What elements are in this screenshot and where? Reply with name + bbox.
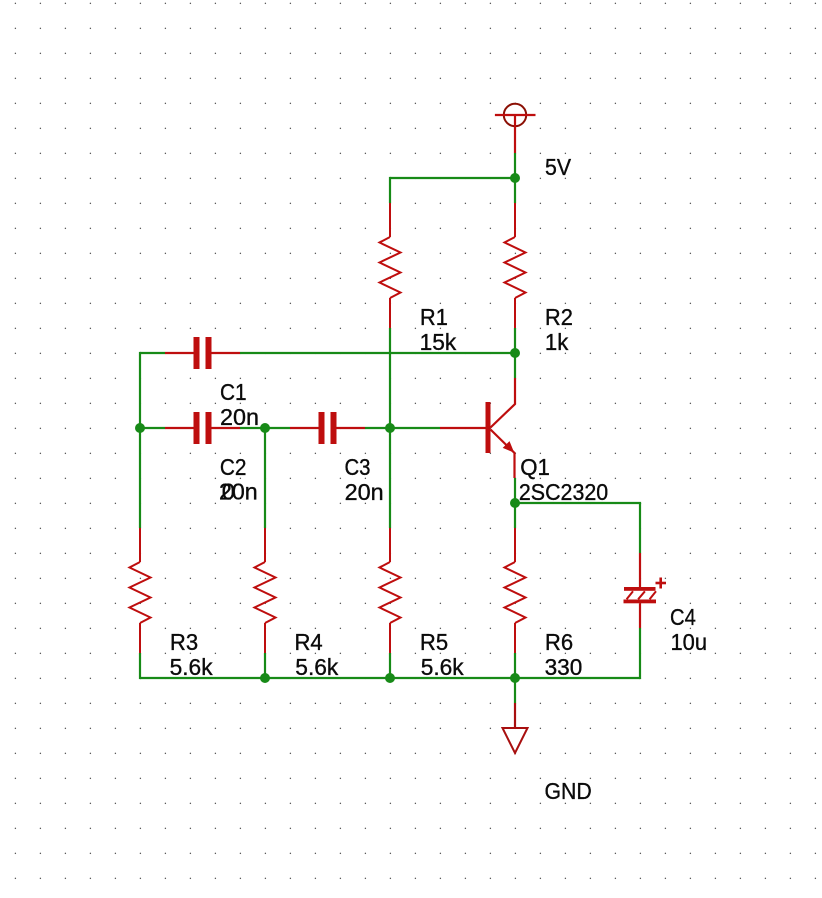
resistor R3 [130,528,151,653]
wire vertical x265 [264,428,266,528]
resistor R5 [380,528,401,653]
junction node emitter [510,498,520,508]
capacitor C2 [165,412,240,444]
wire feedback row y353 left [139,352,141,353]
capacitor C4 polarized [624,553,667,628]
svg-text:5V: 5V [545,154,572,180]
wire base row y428 seg1 [140,427,165,429]
wire bottom ground bus y678 [140,677,640,679]
svg-text:10u: 10u [671,629,708,655]
svg-text:R5: R5 [420,629,448,655]
capacitor C3 [290,412,365,444]
svg-text:0: 0 [222,479,235,505]
wire vertical x515 R2 to collector [514,328,516,378]
svg-text:1k: 1k [545,329,569,355]
wire vertical x515 emitter to R6 [514,478,516,528]
ground symbol [503,703,528,753]
junction node 5V rail [510,173,520,183]
svg-text:20n: 20n [220,404,259,430]
svg-text:5.6k: 5.6k [295,654,338,680]
junction node collector feedback [510,348,520,358]
svg-text:20n: 20n [345,479,384,505]
svg-text:C2: C2 [220,454,247,480]
wire top bus 5V rail [390,177,515,179]
wire feedback row y353 right [240,352,515,354]
capacitor C1 [165,337,240,369]
wire vertical x140 lower [139,653,141,679]
wire vertical x390 middle [389,328,391,528]
junction node base [385,423,395,433]
resistor R6 [505,528,526,653]
supply symbol 5V [495,104,536,153]
junction node bus x390 [385,673,395,683]
resistor R1 [380,203,401,328]
svg-text:5.6k: 5.6k [170,654,213,680]
svg-text:R4: R4 [295,629,323,655]
junction node C2-C3 [260,423,270,433]
wire base row y428 seg2 [240,427,290,429]
wire vertical x390 upper [389,177,391,203]
svg-text:R6: R6 [545,629,573,655]
svg-text:15k: 15k [420,329,457,355]
transistor Q1 [440,378,515,478]
svg-text:C1: C1 [220,379,247,405]
svg-text:5.6k: 5.6k [421,654,464,680]
wire vertical x640 lower [639,628,641,679]
svg-text:330: 330 [545,654,583,680]
wire base row y428 seg3 [365,427,440,429]
wire vertical x265 lower [264,653,266,678]
svg-text:GND: GND [545,778,592,804]
svg-text:C3: C3 [345,454,371,480]
resistor R4 [255,528,276,653]
wire vertical x515 supply to R2 [514,153,516,203]
svg-text:R2: R2 [545,304,573,330]
wire vertical x515 R6 to gnd [514,653,516,703]
wire vertical x390 lower [389,653,391,678]
resistor R2 [505,203,526,328]
junction node C2 left [135,423,145,433]
svg-text:Q1: Q1 [520,454,550,480]
wire emitter to C4 row y503 [515,502,641,504]
junction node bus x515 [510,673,520,683]
svg-text:R3: R3 [170,629,198,655]
svg-text:C4: C4 [670,604,696,630]
wire vertical x140 [139,353,141,528]
svg-text:2SC2320: 2SC2320 [519,479,608,505]
junction node bus x265 [260,673,270,683]
wire vertical x640 upper [639,503,641,553]
svg-text:R1: R1 [420,304,448,330]
